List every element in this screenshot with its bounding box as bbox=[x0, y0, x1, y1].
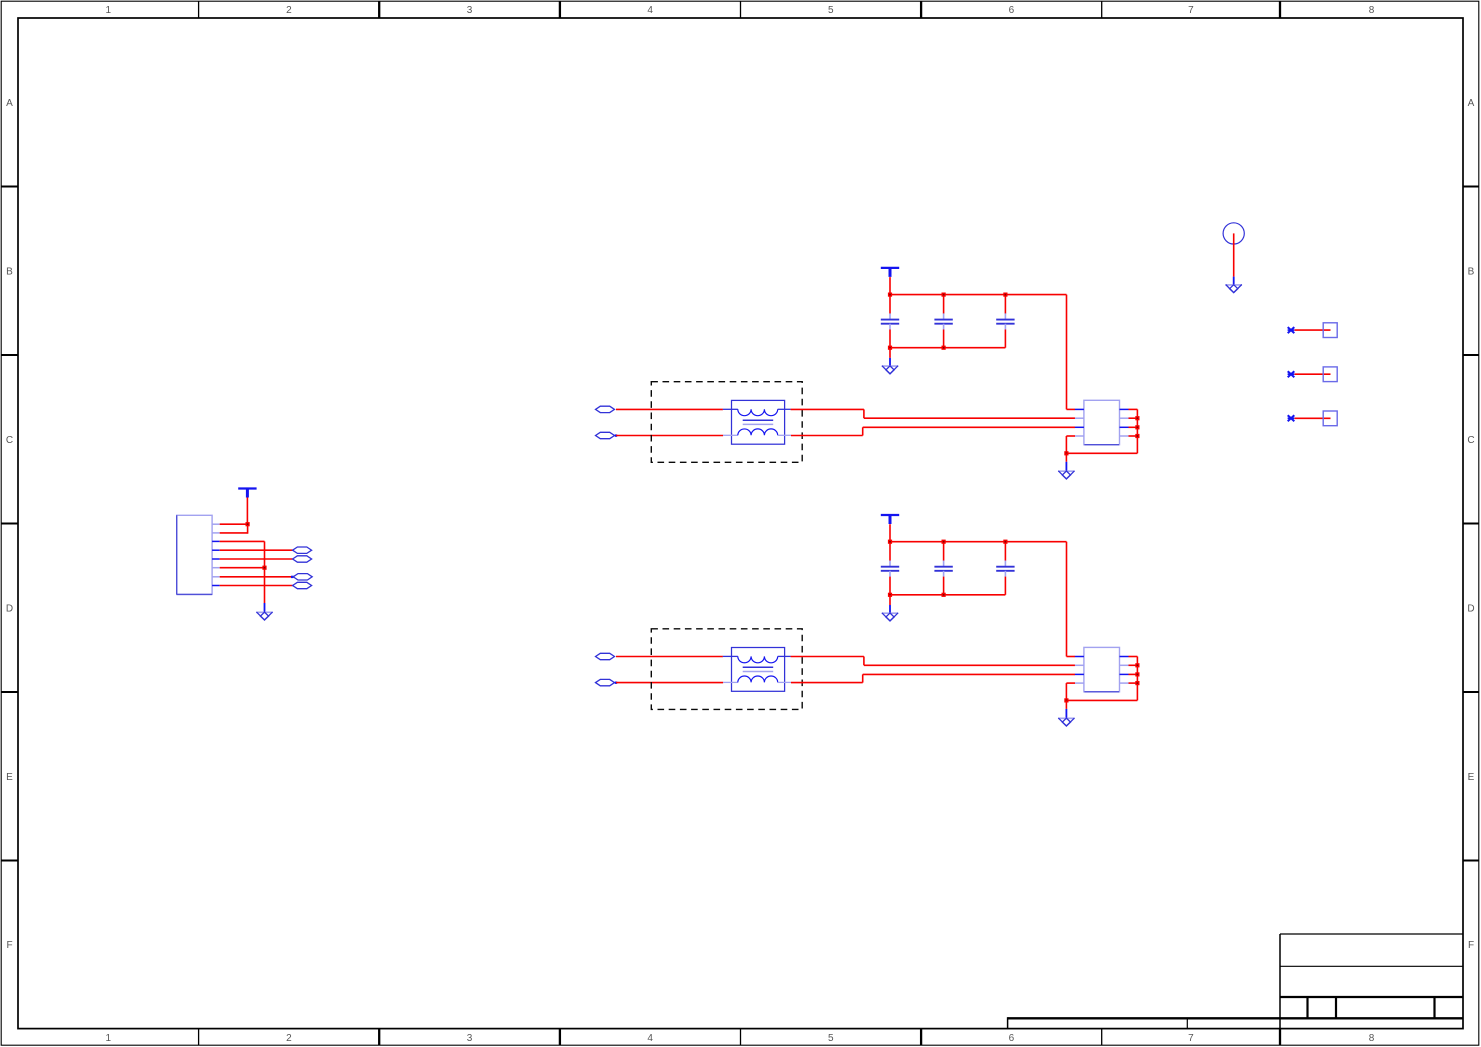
wire top cap bus B bbox=[890, 541, 1067, 543]
wire pin4 loop A bbox=[1066, 436, 1137, 453]
capacitor C2A bbox=[934, 295, 952, 348]
junction pin6/gnd bus bbox=[262, 566, 266, 570]
wire bottom cap bus B bbox=[890, 594, 1005, 596]
svg-text:1: 1 bbox=[106, 1033, 112, 1044]
ground J1 bbox=[256, 612, 272, 620]
svg-text:6: 6 bbox=[1009, 1033, 1015, 1044]
op-amp UB bbox=[1075, 647, 1129, 691]
svg-text:A: A bbox=[1468, 98, 1475, 109]
svg-text:C: C bbox=[6, 435, 13, 446]
wire pin8 bbox=[220, 585, 293, 587]
wire filter out top B bbox=[791, 657, 1075, 666]
port A4 bbox=[293, 582, 312, 588]
svg-text:3: 3 bbox=[467, 1033, 473, 1044]
svg-text:5: 5 bbox=[828, 5, 834, 16]
port IN- A bbox=[596, 432, 618, 438]
junction gnd node B bbox=[1064, 698, 1068, 702]
transformer FLB bbox=[723, 648, 791, 692]
wire power drop A bbox=[889, 277, 891, 295]
gnd stem caps B bbox=[889, 595, 891, 613]
svg-text:1: 1 bbox=[106, 5, 112, 16]
wire filter out bottom B bbox=[791, 674, 1075, 682]
no-connect X TP1 bbox=[1288, 327, 1295, 333]
gnd stem J1 bbox=[264, 603, 266, 612]
wire pin3 to gnd bus bbox=[220, 541, 265, 603]
wire filter out bottom A bbox=[791, 427, 1075, 435]
wire bus to IC pin1 B bbox=[1067, 542, 1076, 657]
svg-text:E: E bbox=[6, 772, 13, 783]
wire port to filter top B bbox=[616, 656, 723, 658]
wire power to pin1 bbox=[246, 498, 248, 525]
capacitor C1A bbox=[881, 295, 899, 348]
junctions top bus A bbox=[888, 293, 1008, 297]
filter dashed box A bbox=[651, 382, 802, 463]
svg-text:6: 6 bbox=[1009, 5, 1015, 16]
capacitor C3A bbox=[996, 295, 1014, 348]
ground M1 bbox=[1226, 285, 1242, 293]
testpoint TP2 bbox=[1323, 367, 1337, 382]
wire right bus B bbox=[1129, 657, 1138, 701]
svg-text:D: D bbox=[6, 603, 13, 614]
power symbol VCC_J bbox=[238, 489, 256, 498]
wire TP1 bbox=[1295, 329, 1331, 331]
svg-text:F: F bbox=[1468, 940, 1474, 951]
port A1 bbox=[293, 547, 312, 553]
no-connect X TP3 bbox=[1288, 415, 1295, 421]
junction pin1/power bbox=[246, 522, 250, 526]
junction gnd node A bbox=[1064, 451, 1068, 455]
no-connect X TP2 bbox=[1288, 371, 1295, 377]
capacitor C2B bbox=[934, 542, 952, 595]
svg-text:8: 8 bbox=[1369, 1033, 1375, 1044]
svg-text:4: 4 bbox=[647, 1033, 653, 1044]
wire pin1 bbox=[220, 523, 248, 525]
power symbol VCC_A bbox=[881, 268, 899, 277]
wire pin7 bbox=[220, 576, 294, 578]
svg-text:2: 2 bbox=[286, 5, 292, 16]
svg-text:F: F bbox=[6, 940, 12, 951]
svg-text:C: C bbox=[1467, 435, 1474, 446]
port IN+ A bbox=[596, 406, 615, 412]
testpoint TP3 bbox=[1323, 411, 1337, 426]
svg-text:8: 8 bbox=[1369, 5, 1375, 16]
junctions right bus B bbox=[1135, 663, 1139, 685]
power symbol VCC_B bbox=[881, 515, 899, 524]
wire pin2 riser bbox=[220, 524, 248, 534]
wire port to filter bottom A bbox=[616, 435, 723, 437]
title block bbox=[1008, 934, 1463, 1029]
capacitor C3B bbox=[996, 542, 1014, 595]
op-amp UA bbox=[1075, 400, 1129, 444]
wire port to filter bottom B bbox=[616, 682, 723, 684]
svg-text:A: A bbox=[6, 98, 13, 109]
wire pin4 bbox=[220, 549, 293, 551]
svg-text:7: 7 bbox=[1188, 1033, 1194, 1044]
wire M1 to gnd bbox=[1233, 233, 1235, 284]
ground caps A bbox=[882, 366, 898, 374]
ground IC B bbox=[1058, 718, 1074, 726]
wire power drop B bbox=[889, 524, 891, 542]
port A2 bbox=[293, 556, 312, 562]
junctions bottom bus B bbox=[888, 593, 946, 597]
svg-text:2: 2 bbox=[286, 1033, 292, 1044]
ground IC A bbox=[1058, 471, 1074, 479]
wire bottom cap bus A bbox=[890, 347, 1005, 349]
wire pin6 bbox=[220, 567, 265, 569]
wire bus to IC pin1 A bbox=[1067, 295, 1076, 410]
connector J1 bbox=[177, 515, 220, 594]
transformer FLA bbox=[723, 400, 791, 444]
port IN- B bbox=[596, 679, 618, 685]
junctions right bus A bbox=[1135, 416, 1139, 438]
gnd stem caps A bbox=[889, 348, 891, 366]
svg-text:7: 7 bbox=[1188, 5, 1194, 16]
wire filter out top A bbox=[791, 409, 1075, 418]
svg-text:B: B bbox=[1468, 266, 1475, 277]
wire TP2 bbox=[1295, 373, 1331, 375]
wire pin4 loop B bbox=[1066, 683, 1137, 700]
svg-text:5: 5 bbox=[828, 1033, 834, 1044]
port IN+ B bbox=[596, 653, 615, 659]
capacitor C1B bbox=[881, 542, 899, 595]
testpoint TP1 bbox=[1323, 323, 1337, 338]
svg-text:4: 4 bbox=[647, 5, 653, 16]
wire top cap bus A bbox=[890, 294, 1067, 296]
gnd stem IC A bbox=[1065, 453, 1067, 471]
wire right bus A bbox=[1129, 409, 1138, 453]
svg-text:D: D bbox=[1467, 603, 1474, 614]
svg-text:B: B bbox=[6, 266, 13, 277]
svg-text:E: E bbox=[1468, 772, 1475, 783]
junctions top bus B bbox=[888, 540, 1008, 544]
mounting hole M1 bbox=[1223, 223, 1244, 244]
junctions bottom bus A bbox=[888, 346, 946, 350]
gnd stem IC B bbox=[1065, 700, 1067, 718]
filter dashed box B bbox=[651, 629, 802, 710]
port A3 bbox=[293, 574, 312, 580]
ground caps B bbox=[882, 613, 898, 621]
svg-text:3: 3 bbox=[467, 5, 473, 16]
wire port to filter top A bbox=[616, 408, 723, 410]
wire TP3 bbox=[1295, 417, 1331, 419]
wire pin5 bbox=[220, 558, 293, 560]
